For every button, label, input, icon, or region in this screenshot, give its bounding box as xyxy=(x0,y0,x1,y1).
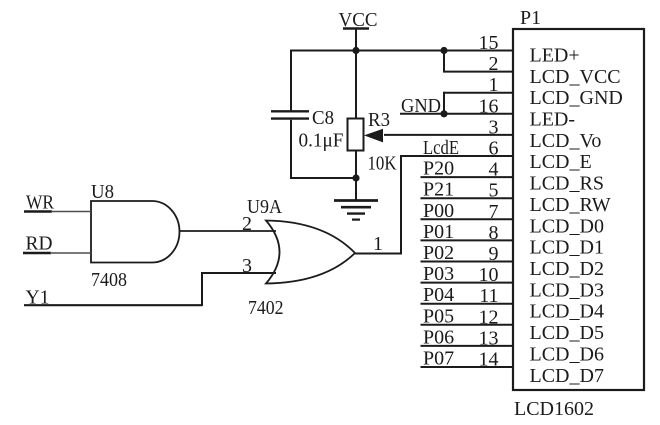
svg-text:LCD_Vo: LCD_Vo xyxy=(530,130,602,152)
svg-text:P02: P02 xyxy=(423,242,454,264)
svg-text:7408: 7408 xyxy=(91,269,127,291)
svg-text:LED-: LED- xyxy=(530,109,576,131)
svg-text:P04: P04 xyxy=(423,284,454,306)
svg-text:15: 15 xyxy=(479,32,499,54)
svg-text:P00: P00 xyxy=(423,200,454,222)
svg-text:LCD_D3: LCD_D3 xyxy=(530,279,604,301)
svg-text:11: 11 xyxy=(479,285,498,307)
svg-text:4: 4 xyxy=(489,159,499,181)
svg-text:U8: U8 xyxy=(91,181,114,203)
svg-text:LCD_D5: LCD_D5 xyxy=(530,322,604,344)
svg-text:LCD1602: LCD1602 xyxy=(514,398,594,420)
svg-text:GND: GND xyxy=(401,95,441,117)
svg-text:P03: P03 xyxy=(423,263,454,285)
svg-text:P1: P1 xyxy=(520,7,541,29)
svg-text:P05: P05 xyxy=(423,305,454,327)
svg-text:2: 2 xyxy=(489,53,499,75)
svg-text:LCD_D2: LCD_D2 xyxy=(530,258,604,280)
svg-text:P01: P01 xyxy=(423,221,454,243)
svg-text:VCC: VCC xyxy=(339,9,378,31)
svg-text:R3: R3 xyxy=(368,109,390,131)
svg-text:P07: P07 xyxy=(423,348,454,370)
svg-text:10: 10 xyxy=(479,264,499,286)
svg-text:13: 13 xyxy=(479,327,499,349)
svg-text:3: 3 xyxy=(242,255,252,277)
svg-text:P21: P21 xyxy=(423,179,454,201)
svg-text:14: 14 xyxy=(479,349,499,371)
svg-text:U9A: U9A xyxy=(247,196,282,218)
svg-text:C8: C8 xyxy=(312,107,334,129)
svg-text:8: 8 xyxy=(489,222,499,244)
svg-text:LCD_D4: LCD_D4 xyxy=(530,301,604,323)
svg-text:WR: WR xyxy=(26,192,55,214)
svg-text:P06: P06 xyxy=(423,326,454,348)
svg-text:1: 1 xyxy=(489,74,499,96)
svg-text:9: 9 xyxy=(489,243,499,265)
svg-text:1: 1 xyxy=(373,233,383,255)
svg-text:16: 16 xyxy=(479,95,499,117)
svg-text:LCD_D0: LCD_D0 xyxy=(530,215,604,237)
svg-text:6: 6 xyxy=(489,138,499,160)
svg-text:10K: 10K xyxy=(368,153,397,175)
svg-text:Y1: Y1 xyxy=(26,287,50,309)
svg-text:LCD_D6: LCD_D6 xyxy=(530,343,604,365)
svg-text:LCD_D7: LCD_D7 xyxy=(530,365,604,387)
svg-text:LCD_RW: LCD_RW xyxy=(530,194,611,216)
svg-text:LCD_GND: LCD_GND xyxy=(530,87,623,109)
svg-text:3: 3 xyxy=(489,116,499,138)
svg-text:5: 5 xyxy=(489,180,499,202)
svg-text:LcdE: LcdE xyxy=(423,137,459,159)
svg-text:P20: P20 xyxy=(423,158,454,180)
svg-text:12: 12 xyxy=(479,306,499,328)
svg-text:LCD_E: LCD_E xyxy=(530,151,592,173)
svg-text:2: 2 xyxy=(242,213,252,235)
svg-text:RD: RD xyxy=(26,233,53,255)
svg-text:7: 7 xyxy=(489,201,499,223)
svg-text:LCD_RS: LCD_RS xyxy=(530,173,604,195)
svg-text:LCD_D1: LCD_D1 xyxy=(530,237,604,259)
svg-text:LCD_VCC: LCD_VCC xyxy=(530,66,621,88)
svg-text:0.1μF: 0.1μF xyxy=(299,130,344,152)
svg-text:LED+: LED+ xyxy=(530,45,580,67)
svg-text:7402: 7402 xyxy=(248,297,284,319)
